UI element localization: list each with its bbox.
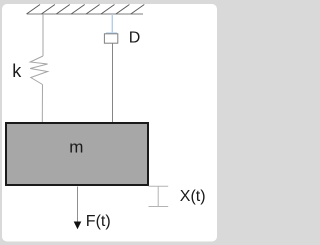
svg-text:F(t): F(t): [86, 213, 111, 230]
svg-text:k: k: [12, 61, 22, 81]
svg-text:X(t): X(t): [180, 188, 206, 205]
svg-text:D: D: [129, 29, 141, 46]
svg-text:m: m: [69, 137, 83, 156]
